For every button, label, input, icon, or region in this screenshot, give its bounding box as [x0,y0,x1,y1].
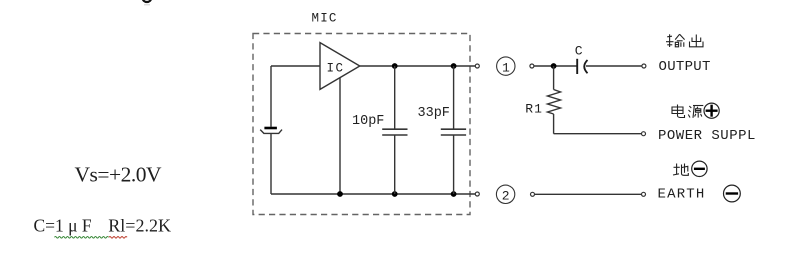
svg-text:IC: IC [327,62,345,76]
grammar wavy underline green [55,237,109,239]
svg-text:10pF: 10pF [352,114,384,129]
terminal pin 1 on box (output) [475,64,479,68]
svg-text:1: 1 [502,60,510,75]
wire left vertical top [270,66,272,127]
microphone element cup [260,130,282,134]
wire left vertical bottom [270,133,272,194]
svg-text:C: C [575,44,583,59]
svg-text:POWER SUPPL: POWER SUPPL [658,128,756,144]
wire input to IC [271,65,320,67]
label di (Chinese: earth) [673,164,688,176]
terminal open circle row1 left [530,64,534,68]
capacitor 10pF [382,66,407,194]
wire capacitor C to output terminal [586,65,642,67]
spelling wavy underline red [109,237,127,239]
label dian (Chinese: power char1) [672,105,685,118]
svg-text:R1: R1 [525,102,543,117]
svg-text:2: 2 [502,189,510,204]
capacitor 33pF [441,66,466,194]
capacitor C polarized [577,59,587,74]
junction rail IC [337,191,343,197]
svg-text:MIC: MIC [312,12,338,26]
label shu (Chinese: output char1) [666,34,685,47]
label yuan (Chinese: power char2) [688,106,703,118]
symbol circled minus after EARTH [724,185,741,202]
junction top 10pF [392,63,398,69]
junction node row1 [551,63,557,69]
dashed enclosure box [253,34,470,215]
node label circled 1 [497,57,515,75]
wire IC output [360,65,475,67]
wire to power terminal [554,133,642,135]
wire node to resistor [553,66,555,90]
junction top 33pF [451,63,457,69]
svg-text:EARTH: EARTH [658,187,706,203]
symbol circled plus power [704,103,719,118]
resistor R1 [548,90,561,115]
terminal open circle row2 left [531,192,535,196]
svg-text:OUTPUT: OUTPUT [659,59,711,75]
terminal open circle output [642,64,646,68]
microphone element plate [264,127,277,130]
node label circled 2 [496,185,514,203]
svg-text:Vs=+2.0V: Vs=+2.0V [75,163,163,187]
wire resistor down [553,114,555,134]
symbol circled minus earth row [692,161,707,176]
op-amp IC triangle [320,43,360,90]
terminal open circle power [642,132,646,136]
partial clipped letter at top edge [143,0,151,2]
wire row2 earth [535,193,642,195]
wire bottom rail [271,193,475,195]
label chu (Chinese: output char2) [690,35,704,47]
wire row1 to capacitor C [534,65,577,67]
terminal pin 2 on box (ground) [475,192,479,196]
wire IC bottom to rail [339,78,341,194]
terminal open circle earth [642,192,646,196]
svg-text:33pF: 33pF [418,106,450,121]
junction rail 33pF [451,191,457,197]
junction rail 10pF [392,191,398,197]
